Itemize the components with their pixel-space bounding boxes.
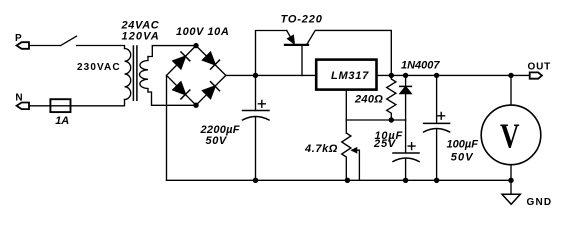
- adjust node wire: [346, 119, 405, 121]
- capacitor C1 2200uF lead: [255, 75, 257, 110]
- svg-text:240Ω: 240Ω: [354, 93, 383, 105]
- wire bridge minus to ground rail: [166, 75, 168, 180]
- transformer core: [133, 46, 137, 100]
- capacitor C1 plus sign: [258, 100, 265, 107]
- svg-text:P: P: [15, 33, 22, 44]
- capacitor C3 plus plate: [424, 122, 450, 124]
- svg-text:4.7kΩ: 4.7kΩ: [304, 143, 338, 155]
- capacitor C2 bottom lead: [405, 159, 407, 181]
- voltmeter M1 top lead: [510, 75, 512, 105]
- junction dot R2 ground: [345, 178, 350, 183]
- terminal OUT: [530, 72, 542, 78]
- ground symbol: [510, 180, 512, 194]
- capacitor C1 curved plate: [243, 117, 270, 121]
- junction dot bridge AC1: [193, 43, 198, 48]
- capacitor C1 plus plate: [243, 110, 270, 112]
- bridge diode D1 (left-top): [173, 56, 186, 69]
- wire N to fuse: [29, 105, 50, 107]
- potentiometer R2 wiper: [352, 148, 357, 153]
- svg-text:25V: 25V: [373, 138, 397, 150]
- junction dot C3 ground: [434, 178, 439, 183]
- diode D5 1N4007: [405, 75, 407, 86]
- junction dot voltmeter top: [508, 73, 513, 78]
- bridge diode D3 (left-bottom): [173, 82, 186, 95]
- junction dot C3 top: [434, 73, 439, 78]
- transistor Q1 emitter: [287, 31, 293, 42]
- wire bridge plus to LM317 input: [226, 74, 316, 76]
- transistor Q1 collector: [307, 30, 391, 75]
- svg-text:V: V: [500, 117, 520, 156]
- svg-text:100V 10A: 100V 10A: [176, 26, 229, 38]
- wire secondary top to bridge AC1: [148, 46, 196, 57]
- junction dot C1 ground: [253, 178, 258, 183]
- output rail: [377, 74, 530, 76]
- capacitor C3 bottom lead: [436, 129, 438, 180]
- capacitor C2 10uF lead: [405, 120, 407, 153]
- switch S1: [61, 36, 77, 45]
- LM317 adjust lead: [345, 90, 347, 133]
- capacitor C2 plus plate: [393, 152, 419, 154]
- wire switch to transformer primary top: [77, 46, 125, 49]
- svg-text:100µF: 100µF: [447, 139, 479, 151]
- terminal N: [17, 103, 29, 110]
- svg-text:120VA: 120VA: [122, 31, 160, 43]
- junction dot bridge AC2: [193, 103, 198, 108]
- capacitor C2 curved plate: [393, 158, 419, 162]
- svg-text:1N4007: 1N4007: [401, 60, 440, 72]
- capacitor C1 bottom lead: [255, 118, 257, 181]
- capacitor C3 100uF lead: [436, 75, 438, 123]
- terminal P: [17, 42, 29, 49]
- resistor R1 240ohm: [387, 75, 396, 120]
- voltmeter M1 bottom lead: [510, 165, 512, 181]
- capacitor C3 curved plate: [424, 129, 450, 133]
- svg-text:TO-220: TO-220: [281, 13, 323, 25]
- svg-text:LM317: LM317: [331, 70, 369, 82]
- wire secondary bottom to bridge AC2: [148, 92, 196, 105]
- wire P to switch: [29, 45, 61, 47]
- ground rail: [167, 179, 512, 181]
- svg-text:OUT: OUT: [528, 62, 552, 73]
- bridge rectifier frame: [167, 46, 226, 106]
- wire emitter riser: [256, 31, 287, 76]
- potentiometer R2 4.7k: [342, 133, 351, 180]
- junction dot C2 ground: [403, 178, 408, 183]
- svg-text:N: N: [15, 93, 22, 104]
- capacitor C3 plus sign: [438, 112, 445, 119]
- voltmeter M1 body: [481, 105, 541, 165]
- svg-text:230VAC: 230VAC: [77, 62, 121, 73]
- svg-text:50V: 50V: [206, 135, 228, 147]
- junction dot collector/R1: [389, 73, 394, 78]
- wire fuse to transformer primary bottom: [71, 100, 125, 106]
- fuse F1 1A: [50, 99, 70, 112]
- junction dot input rail: [253, 73, 258, 78]
- bridge diode D2 (top-right): [203, 52, 216, 65]
- transistor Q1 base lead: [301, 46, 303, 75]
- transformer T1 primary winding: [125, 49, 131, 100]
- svg-text:GND: GND: [527, 197, 553, 208]
- svg-text:50V: 50V: [451, 152, 474, 164]
- bridge diode D4 (bottom-right): [203, 86, 216, 99]
- regulator U1 LM317 box: [316, 60, 376, 90]
- svg-text:1A: 1A: [55, 115, 69, 127]
- transistor Q1 base bar: [285, 44, 308, 46]
- junction dot D5 top: [403, 73, 408, 78]
- transformer T1 secondary winding: [140, 57, 149, 93]
- junction dot R1 bottom: [389, 117, 394, 122]
- svg-text:24VAC: 24VAC: [121, 19, 160, 31]
- junction dot ground end: [508, 178, 513, 183]
- capacitor C2 plus sign: [408, 143, 415, 150]
